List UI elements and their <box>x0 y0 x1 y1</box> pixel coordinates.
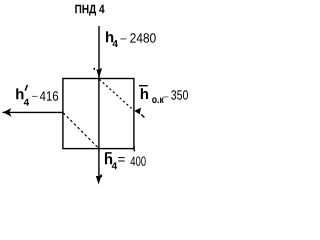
label: h-bar o.k - 350 (main condensate enthalpy, right) <box>139 86 188 103</box>
label: h4 - 2480 (extraction steam enthalpy) <box>106 31 156 47</box>
wire: drain outlet pipe to the left <box>2 111 63 113</box>
label: heater title ПНД 4 <box>75 5 104 16</box>
arrowhead: drain flow to the left <box>3 108 12 117</box>
label: h-bar 4 = 400 (condensate outlet enthalpy) <box>105 153 146 169</box>
label: h'4 - 416 (heater drain enthalpy) <box>16 85 58 106</box>
dashed heat-transfer line B: left node to bottom node <box>63 113 99 149</box>
heater body: square box of ПНД 4 <box>63 79 134 152</box>
arrowhead: on dashed line A at right edge of box <box>134 108 141 115</box>
dashed heat-transfer line A: top node to right edge <box>99 79 144 117</box>
wire: condensate outlet pipe below heater <box>98 149 100 178</box>
wire: vertical pipe through heater body <box>98 79 100 149</box>
arrowhead: steam flow down into heater <box>94 68 102 79</box>
wire: steam extraction inlet pipe (vertical, from top) <box>98 26 100 78</box>
arrowhead: condensate flow down out of heater <box>96 175 102 185</box>
